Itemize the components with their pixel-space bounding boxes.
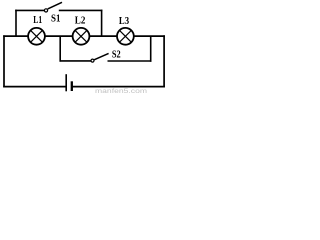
svg-text:S2: S2 <box>112 50 121 61</box>
svg-text:L3: L3 <box>119 16 129 27</box>
lamp L2 <box>73 28 90 45</box>
svg-text:S1: S1 <box>51 13 60 24</box>
switch S1 blade (open) <box>48 2 62 9</box>
lamp L3 <box>117 28 134 45</box>
svg-text:manfen5.com: manfen5.com <box>95 88 147 94</box>
switch S2 blade (open) <box>94 53 109 59</box>
svg-text:L1: L1 <box>33 15 42 26</box>
wire: S2 branch left vertical drop (node between L1 and L2) <box>59 36 61 62</box>
switch S1 pivot contact <box>44 9 47 12</box>
wire: right edge of outer loop <box>163 35 165 87</box>
wire: S1 branch top-left horizontal <box>15 9 44 11</box>
wire: bottom left (to battery) <box>3 86 66 88</box>
svg-text:L2: L2 <box>75 16 86 27</box>
battery: long plate <box>65 74 67 91</box>
battery: short plate <box>71 81 73 91</box>
wire: S2 branch right vertical rise (node right of L3) <box>150 36 152 62</box>
wire: S2 branch right horizontal <box>108 60 152 62</box>
wire: S1 branch left vertical drop <box>15 10 17 36</box>
wire: S1 branch right vertical drop <box>101 10 103 36</box>
wire: lamp row horizontal rail <box>3 35 165 37</box>
wire: S1 branch top-right horizontal <box>59 9 103 11</box>
wire: S2 branch left horizontal <box>60 60 92 62</box>
lamp L1 <box>28 28 45 45</box>
wire: bottom right (from battery) <box>72 86 165 88</box>
switch S2 pivot contact <box>91 59 94 62</box>
wire: left edge of outer loop <box>3 35 5 87</box>
